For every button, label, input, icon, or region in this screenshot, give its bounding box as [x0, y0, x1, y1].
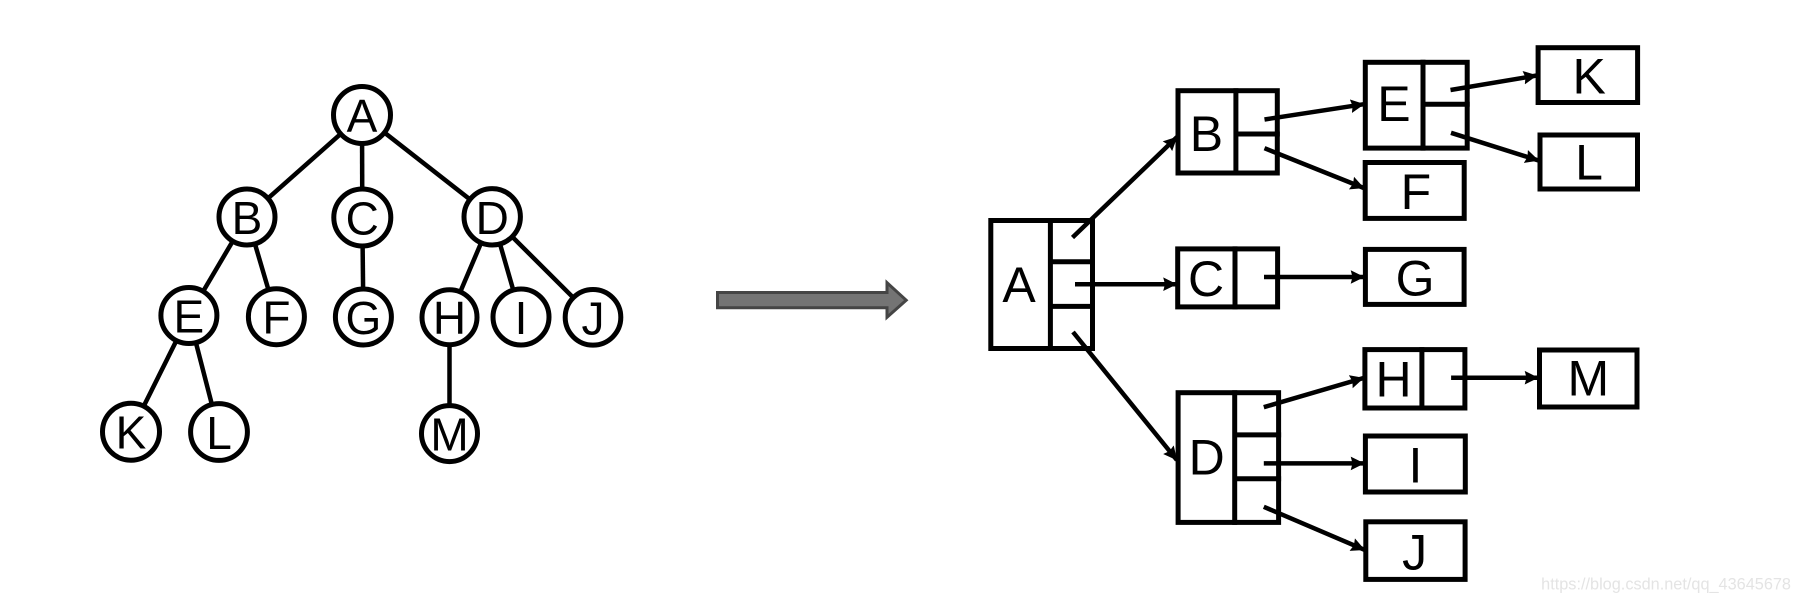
node box D [1178, 390, 1281, 525]
node box A [991, 218, 1095, 351]
wire D.c1 to H [1264, 378, 1364, 407]
svg-text:A: A [1002, 257, 1036, 313]
svg-text:E: E [174, 291, 205, 343]
wire A-B [247, 115, 362, 217]
svg-text:K: K [116, 407, 147, 459]
svg-text:D: D [1189, 430, 1225, 486]
leaf box L [1540, 135, 1638, 189]
wire E.c2 to L [1451, 133, 1539, 161]
node E circle [161, 288, 217, 344]
node D circle [464, 189, 520, 245]
svg-text:C: C [346, 193, 379, 245]
node M circle [422, 406, 478, 462]
wire B-F [247, 217, 276, 317]
node J circle [565, 290, 621, 346]
wire D-J [492, 217, 593, 317]
node F circle [248, 289, 304, 345]
svg-text:A: A [347, 90, 378, 142]
wire E.c1 to K [1451, 76, 1537, 91]
svg-text:G: G [346, 292, 382, 344]
wire B-E [189, 217, 247, 316]
node C circle [334, 189, 391, 246]
svg-text:I: I [1408, 437, 1422, 493]
svg-text:B: B [232, 192, 263, 244]
node G circle [335, 289, 391, 345]
wire D.c3 to J [1264, 507, 1365, 550]
svg-text:C: C [1188, 251, 1224, 307]
svg-text:H: H [433, 292, 466, 344]
leaf box I [1365, 436, 1465, 492]
wire B.c1 to E [1265, 104, 1365, 119]
node box H [1365, 347, 1465, 410]
node L circle [191, 404, 248, 461]
svg-text:K: K [1573, 49, 1606, 105]
wire A.c3 to D [1073, 332, 1177, 460]
wire H-M [447, 317, 452, 433]
svg-text:I: I [515, 292, 528, 344]
node box C [1178, 246, 1278, 309]
node H circle [422, 290, 477, 345]
svg-text:H: H [1375, 352, 1411, 408]
wire A.c1 to B [1073, 137, 1178, 238]
svg-text:J: J [1402, 525, 1427, 581]
leaf box M [1540, 350, 1638, 407]
svg-text:J: J [582, 292, 605, 344]
wire D.c2 to I [1264, 461, 1364, 466]
wire D-I [492, 217, 521, 317]
svg-text:D: D [476, 192, 509, 244]
svg-text:F: F [262, 292, 290, 344]
wire H.c1 to M [1451, 375, 1538, 380]
wire D-H [450, 217, 493, 317]
leaf box F [1365, 163, 1464, 219]
leaf box K [1538, 48, 1638, 103]
svg-text:E: E [1377, 76, 1410, 132]
node box E [1365, 60, 1469, 151]
big gray arrow [718, 283, 907, 318]
svg-text:L: L [1575, 135, 1603, 191]
node K circle [103, 403, 160, 460]
svg-text:F: F [1401, 164, 1432, 220]
wire A.c2 to C [1075, 282, 1177, 287]
svg-text:M: M [1567, 351, 1609, 407]
svg-text:B: B [1190, 106, 1223, 162]
svg-text:L: L [206, 407, 232, 459]
wire C-G [362, 218, 363, 318]
wire A-D [362, 115, 492, 217]
svg-text:G: G [1396, 251, 1435, 307]
node box B [1178, 88, 1280, 175]
node A circle [334, 87, 391, 144]
svg-text:https://blog.csdn.net/qq_43645: https://blog.csdn.net/qq_43645678 [1541, 576, 1791, 594]
wire A-C [360, 115, 365, 218]
node B circle [219, 189, 275, 245]
svg-text:M: M [430, 409, 468, 461]
node I circle [493, 289, 549, 345]
wire E-L [189, 316, 219, 433]
wire B.c2 to F [1265, 148, 1364, 188]
wire E-K [131, 316, 189, 432]
leaf box J [1366, 522, 1465, 580]
wire C.c1 to G [1264, 275, 1364, 280]
leaf box G [1365, 249, 1464, 304]
